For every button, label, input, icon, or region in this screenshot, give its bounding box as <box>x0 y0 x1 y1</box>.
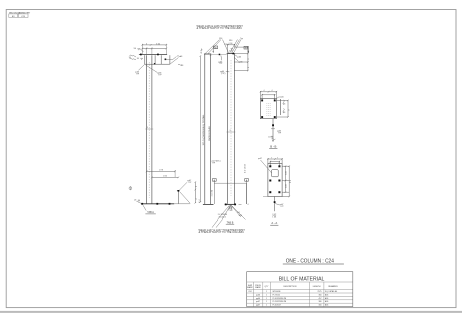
right cap leader labels <box>234 54 238 56</box>
svg-text:SQ. DETAIL A1: SQ. DETAIL A1 <box>325 290 337 293</box>
svg-text:BILL OF MATERIAL: BILL OF MATERIAL <box>279 276 325 282</box>
A-A bolts <box>269 165 271 167</box>
right base plate <box>225 203 236 205</box>
svg-text:TYP: TYP <box>188 182 192 184</box>
svg-text:B: B <box>245 48 247 50</box>
svg-text:300: 300 <box>319 305 322 307</box>
svg-text:2575: 2575 <box>318 291 322 293</box>
svg-text:7: 7 <box>277 157 278 159</box>
svg-text:MARK: MARK <box>255 286 261 289</box>
left base dimension line 2 <box>151 177 179 179</box>
A-A top dim lines <box>267 158 283 166</box>
svg-text:QTY: QTY <box>265 286 270 288</box>
svg-text:4 3/4: 4 3/4 <box>286 184 288 188</box>
svg-text:TYP: TYP <box>136 74 140 76</box>
weld squiggle symbols left column <box>130 55 137 57</box>
svg-text:1/4: 1/4 <box>283 103 285 105</box>
svg-text:3/16: 3/16 <box>229 40 232 42</box>
right column flange lines <box>228 54 235 204</box>
svg-text:457: 457 <box>319 298 322 300</box>
svg-text:4: 4 <box>196 199 198 200</box>
section marker A right <box>245 179 249 182</box>
base extension lines <box>174 170 176 177</box>
svg-text:1'-0 3/4: 1'-0 3/4 <box>211 189 213 196</box>
svg-text:380: 380 <box>319 301 322 303</box>
top-left reference table <box>9 14 28 18</box>
section line between A markers <box>214 182 246 184</box>
svg-text:6 1/4: 6 1/4 <box>229 43 233 45</box>
svg-text:B: B <box>215 47 217 49</box>
svg-text:2'-0 13/16: 2'-0 13/16 <box>244 163 246 173</box>
middle total dim line <box>199 56 201 202</box>
svg-text:360: 360 <box>319 294 322 296</box>
svg-text:pp66: pp66 <box>239 62 243 64</box>
svg-text:2: 2 <box>248 51 250 52</box>
svg-text:& THEN ATTACH IT TO THE COLUMN: & THEN ATTACH IT TO THE COLUMN. <box>197 27 243 30</box>
right column mid tick <box>227 131 236 133</box>
svg-text:3/16: 3/16 <box>219 38 222 40</box>
table headers <box>247 285 338 289</box>
svg-text:ASSEMBLY PART: ASSEMBLY PART <box>19 12 30 15</box>
svg-text:E: E <box>199 202 201 204</box>
left top dimension line 1 <box>142 44 168 46</box>
bracket bolt dots <box>165 59 167 61</box>
svg-text:TYP: TYP <box>158 75 162 77</box>
svg-text:X 0'-4 1/2: X 0'-4 1/2 <box>219 216 226 218</box>
svg-text:pp66: pp66 <box>256 298 260 300</box>
left column mid tick <box>145 128 153 130</box>
svg-text:5 3/4: 5 3/4 <box>286 171 288 175</box>
svg-text:3: 3 <box>146 43 147 45</box>
svg-text:PL7X152: PL7X152 <box>273 294 280 296</box>
pyramid leaders below right base <box>212 205 246 227</box>
svg-text:4: 4 <box>272 90 273 92</box>
anchor bolts left base <box>141 203 143 205</box>
svg-text:25 Typ: 25 Typ <box>201 48 203 53</box>
right vertical dim at base <box>195 181 197 203</box>
svg-text:A - A: A - A <box>271 221 277 225</box>
svg-text:TAB A: TAB A <box>147 211 154 214</box>
right side dim line top <box>234 46 248 71</box>
middle cap small tick <box>210 55 212 56</box>
svg-text:8: 8 <box>248 67 250 68</box>
svg-text:pu66: pu66 <box>256 294 260 296</box>
A-A base plate outline <box>268 164 282 197</box>
svg-text:8: 8 <box>248 59 250 60</box>
left column cap plate pu66 <box>139 54 167 56</box>
leader to pu66 label left <box>139 64 145 70</box>
svg-text:4: 4 <box>248 204 249 206</box>
svg-text:1/4: 1/4 <box>268 137 270 139</box>
svg-text:1: 1 <box>266 298 267 300</box>
svg-text:1/4: 1/4 <box>134 48 137 50</box>
svg-text:C24: C24 <box>248 291 251 293</box>
svg-text:3/16: 3/16 <box>239 215 242 217</box>
leader from bracket to weld symbol right <box>165 58 173 60</box>
right top small dim <box>227 44 235 53</box>
svg-text:8: 8 <box>289 110 291 111</box>
TAB A leader <box>143 205 146 210</box>
svg-text:REMARKS: REMARKS <box>328 285 338 288</box>
centerline symbol left of base <box>129 187 132 190</box>
svg-text:6 1/4: 6 1/4 <box>156 43 160 45</box>
svg-text:1/4: 1/4 <box>237 212 239 214</box>
table rows <box>248 290 337 307</box>
svg-text:7: 7 <box>271 157 272 159</box>
leaders to pu66/pp66 labels right of middle cap <box>220 55 223 60</box>
svg-text:1/4: 1/4 <box>283 112 285 114</box>
B-B right dim <box>276 100 288 118</box>
svg-text:A36: A36 <box>325 297 328 300</box>
svg-text:TYP: TYP <box>278 132 282 134</box>
svg-text:pu66: pu66 <box>237 57 241 59</box>
svg-text:Typ: Typ <box>240 38 243 40</box>
svg-text:A36: A36 <box>325 300 328 303</box>
B-B top dim lines <box>260 91 278 100</box>
svg-text:1: 1 <box>266 305 267 307</box>
svg-text:pu66: pu66 <box>280 96 284 98</box>
svg-text:A36: A36 <box>325 304 328 307</box>
svg-text:1 3/4: 1 3/4 <box>272 217 276 219</box>
svg-text:1: 1 <box>266 294 267 296</box>
svg-text:1/4: 1/4 <box>129 57 131 59</box>
svg-text:TYP: TYP <box>219 63 223 65</box>
svg-text:LENGTH: LENGTH <box>313 286 321 288</box>
svg-text:(TYP): (TYP) <box>221 73 226 75</box>
B-B top-right leader pu66 <box>277 97 280 99</box>
svg-text:1 3/4: 1 3/4 <box>229 210 233 212</box>
section marker A left <box>213 179 217 182</box>
B-B plate outline <box>260 99 276 119</box>
svg-text:1/4: 1/4 <box>180 56 182 58</box>
svg-text:TYP: TYP <box>212 163 216 165</box>
svg-text:pu67: pu67 <box>256 301 260 303</box>
svg-text:MARK: MARK <box>247 286 253 289</box>
leaders to pu67 label <box>179 182 187 190</box>
section marker B right <box>244 46 248 49</box>
clip angle at base right <box>177 191 180 204</box>
svg-text:DESCRIPTION: DESCRIPTION <box>283 286 297 288</box>
svg-text:1 7/8: 1 7/8 <box>159 170 163 172</box>
svg-text:3: 3 <box>196 186 198 187</box>
section marker B left (top bracket cut) <box>214 46 218 49</box>
svg-text:PL10X203X0.2M: PL10X203X0.2M <box>273 298 287 300</box>
svg-text:pu67: pu67 <box>258 158 262 160</box>
top bracket plate pp66 edge <box>145 55 170 64</box>
svg-text:TYP: TYP <box>280 206 284 208</box>
B-B right bent plate profile <box>279 99 281 115</box>
svg-text:1/4: 1/4 <box>134 200 136 202</box>
svg-text:PL19X229X0.2M: PL19X229X0.2M <box>273 301 287 303</box>
B-B column web dashes <box>267 103 270 116</box>
leader fan from top note to caps <box>205 40 241 54</box>
svg-text:1: 1 <box>266 301 267 303</box>
svg-text:1 3/4: 1 3/4 <box>163 176 167 178</box>
B-B stem below <box>272 119 274 142</box>
extension lines above cap <box>142 44 166 54</box>
svg-text:10'-5 (W200X46) TOTAL: 10'-5 (W200X46) TOTAL <box>202 113 205 145</box>
left base dimension line 1 <box>146 171 176 173</box>
svg-text:5 1/2: 5 1/2 <box>229 51 233 53</box>
svg-text:TAB B: TAB B <box>227 221 234 224</box>
A-A stem below <box>274 197 276 212</box>
left column flange lines <box>147 55 152 204</box>
svg-text:1: 1 <box>266 291 267 293</box>
leader to pp66 label <box>146 65 158 72</box>
left top dimension line 2 <box>142 48 168 50</box>
right lower dim line <box>246 183 248 204</box>
cap bolts <box>140 54 142 56</box>
svg-text:W200X46: W200X46 <box>209 125 211 141</box>
svg-text:4: 4 <box>264 90 265 92</box>
svg-text:PL10X127: PL10X127 <box>273 305 281 307</box>
svg-text:pp67: pp67 <box>256 305 260 307</box>
B-B bottom weld marks <box>271 136 273 137</box>
left column web dashed center <box>148 62 150 198</box>
A-A right dims <box>282 165 290 197</box>
svg-text:1/4: 1/4 <box>181 65 183 67</box>
right column web dashed <box>230 60 232 196</box>
base right tick <box>239 203 242 205</box>
middle column cap plate <box>204 53 211 55</box>
connecting line between middle and right caps <box>211 54 227 56</box>
svg-text:1'-1: 1'-1 <box>290 180 292 183</box>
svg-text:1/4: 1/4 <box>137 58 139 60</box>
middle base plate <box>203 203 214 205</box>
middle column flange lines <box>205 54 211 204</box>
svg-text:A36: A36 <box>325 293 328 296</box>
A-A column profile <box>272 170 279 177</box>
left base plate <box>141 203 174 205</box>
svg-text:B - B: B - B <box>270 144 276 148</box>
svg-text:W200X46: W200X46 <box>273 291 281 293</box>
viewer bottom edge strip <box>0 311 462 313</box>
B-B bolts <box>261 100 263 102</box>
right column cap <box>227 53 236 55</box>
svg-text:& THEN ATTACH IT TO THE COLUMN: & THEN ATTACH IT TO THE COLUMN. <box>199 231 245 234</box>
